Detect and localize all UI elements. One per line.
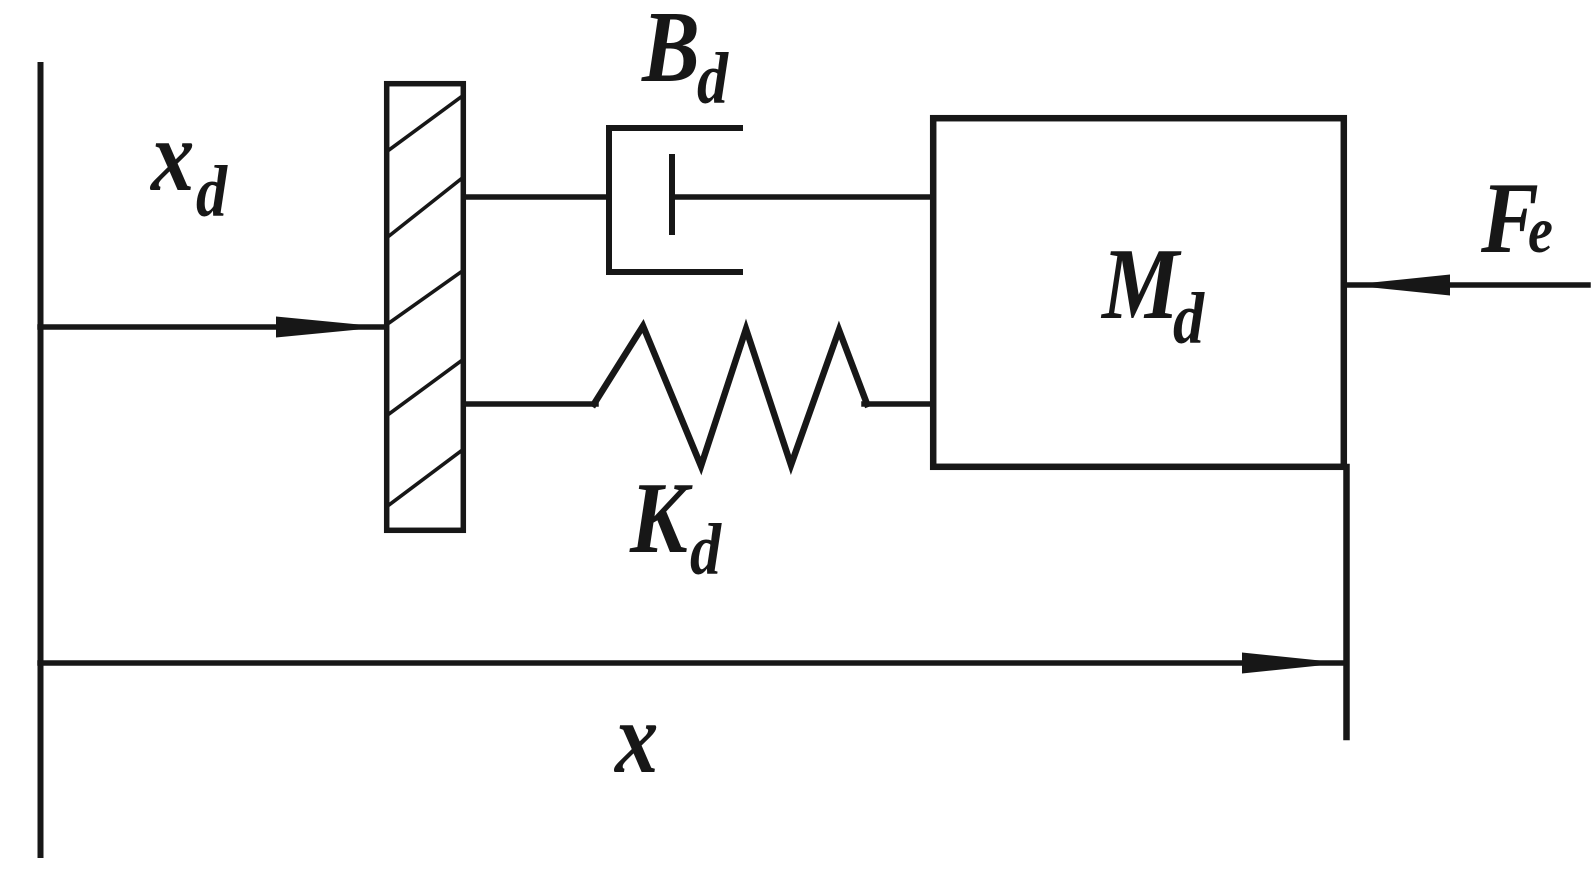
svg-text:d: d (196, 151, 228, 232)
svg-text:M: M (1100, 229, 1182, 341)
svg-text:e: e (1528, 194, 1553, 267)
arrowhead x_d (276, 317, 384, 338)
wire wall to damper (464, 194, 609, 200)
svg-text:x: x (613, 683, 658, 795)
svg-text:B: B (641, 0, 700, 104)
ground reference line (left datum) (38, 65, 44, 855)
wire spring to mass M_d (864, 401, 930, 407)
arrowhead x (1242, 653, 1344, 674)
svg-text:d: d (690, 509, 722, 590)
svg-text:d: d (1173, 278, 1205, 359)
wall (hatched ground block) (387, 84, 464, 531)
wire damper rod to mass M_d (672, 194, 930, 200)
spring K_d (594, 326, 867, 466)
damper B_d piston (669, 157, 675, 232)
mass M_d box (933, 118, 1344, 467)
wire x arrow shaft (40, 660, 1344, 666)
svg-text:K: K (629, 463, 693, 575)
damper B_d cylinder (609, 128, 740, 272)
wire x_d arrow shaft (40, 324, 384, 330)
force F_e arrow shaft (1346, 282, 1588, 288)
wire wall to spring (464, 401, 596, 407)
svg-text:d: d (697, 38, 729, 119)
svg-text:x: x (149, 101, 194, 213)
wire mass right edge extension (to x arrow) (1343, 467, 1350, 737)
arrowhead F_e (1348, 275, 1450, 296)
